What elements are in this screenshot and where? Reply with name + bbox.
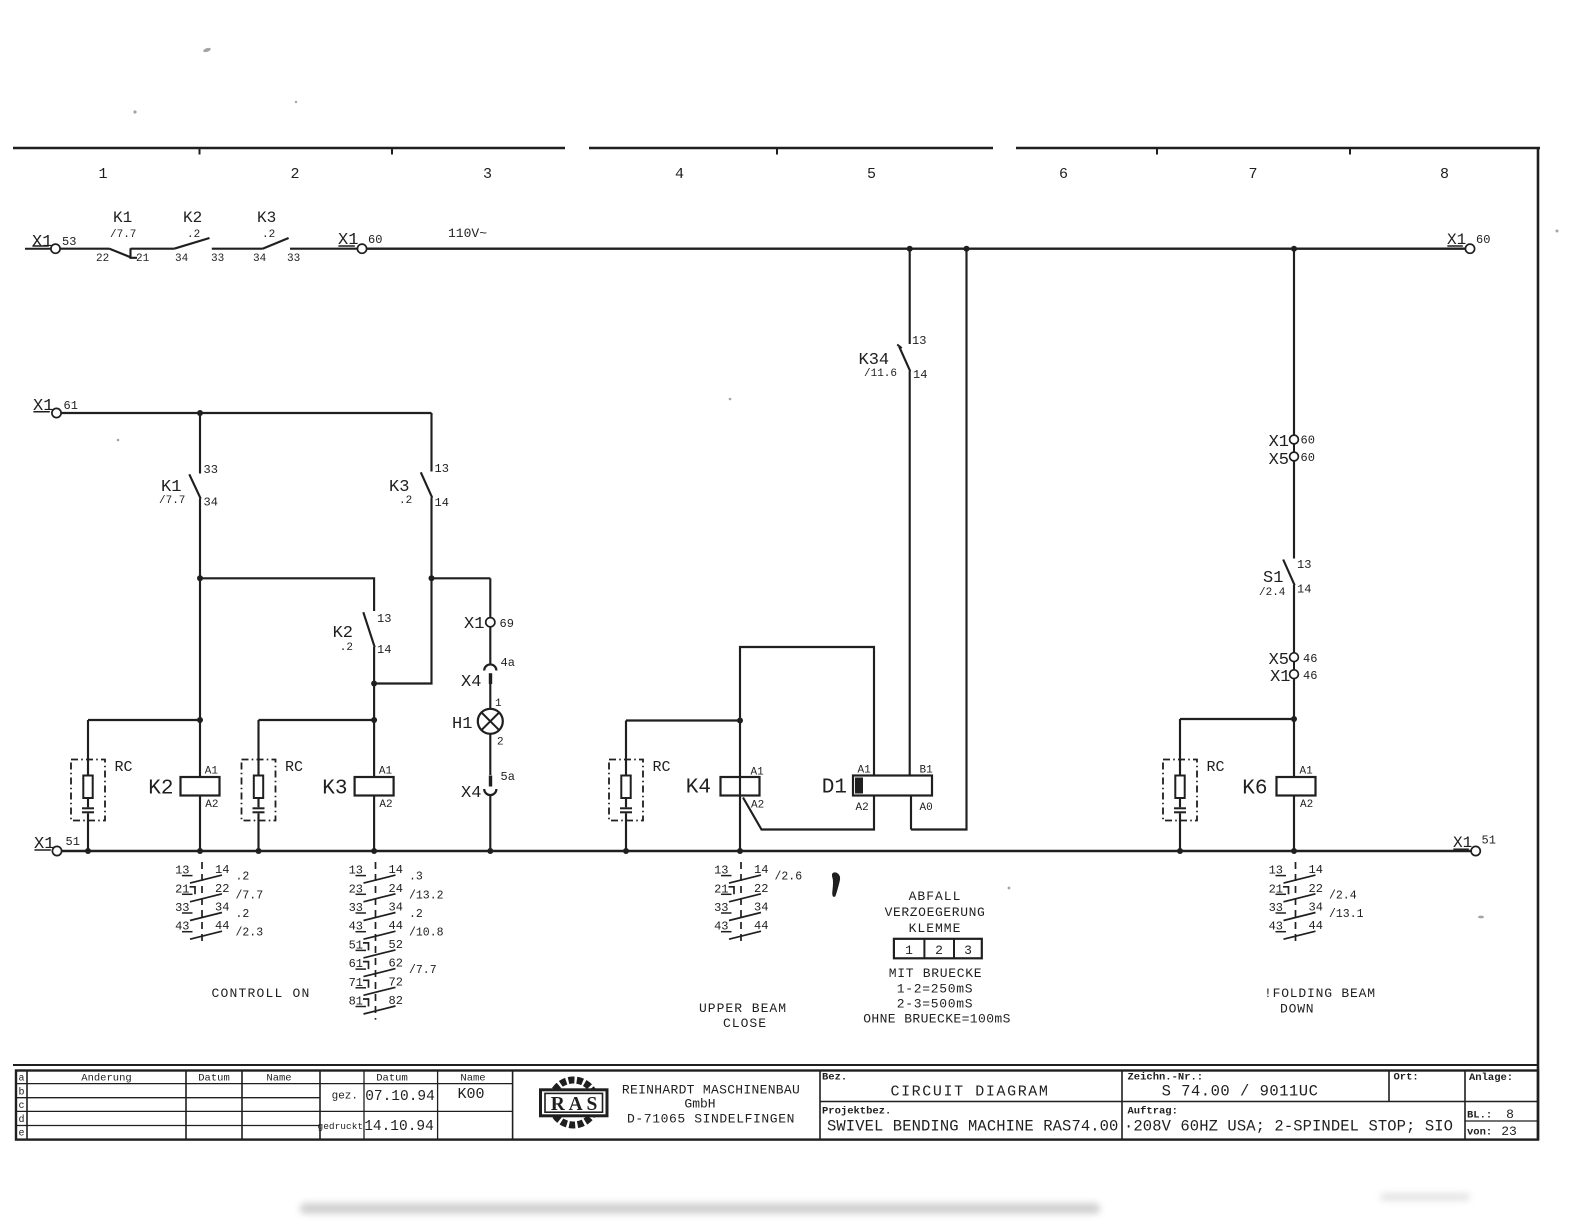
junction RC6/bus xyxy=(1177,848,1183,854)
junction K6/bus xyxy=(1291,848,1297,854)
svg-text:69: 69 xyxy=(500,617,514,631)
junction bus/K6 branch xyxy=(1291,246,1297,252)
svg-text:/7.7: /7.7 xyxy=(236,889,264,902)
wire X4 5a to bus xyxy=(489,795,491,851)
terminal X1:60 xyxy=(338,231,382,253)
junction X1:61/K1 xyxy=(197,410,203,416)
svg-text:3: 3 xyxy=(483,166,492,183)
svg-text:14: 14 xyxy=(1309,863,1323,877)
svg-text:ABFALL: ABFALL xyxy=(909,889,962,904)
svg-text:4: 4 xyxy=(675,166,684,183)
svg-text:110V~: 110V~ xyxy=(448,226,487,241)
svg-text:60: 60 xyxy=(368,233,382,247)
svg-text:KLEMME: KLEMME xyxy=(909,921,962,936)
wire X1:53 to K1 xyxy=(60,248,109,250)
svg-text:22: 22 xyxy=(1309,882,1323,896)
svg-text:21: 21 xyxy=(136,253,150,265)
svg-text:13: 13 xyxy=(1297,558,1311,572)
wire D1 A2 to K4 A2 xyxy=(743,796,874,830)
svg-text:.3: .3 xyxy=(409,871,423,884)
contact table K3 xyxy=(349,862,444,1020)
svg-text:OHNE BRUECKE=100mS: OHNE BRUECKE=100mS xyxy=(863,1012,1011,1027)
wire K2 contact to junction xyxy=(373,647,375,684)
wire K3 to X1:60 xyxy=(290,248,357,250)
svg-text:K00: K00 xyxy=(457,1086,484,1103)
coil K2 xyxy=(148,766,219,812)
svg-text:X1: X1 xyxy=(1270,668,1290,687)
svg-text:/2.4: /2.4 xyxy=(1259,587,1286,599)
svg-text:/2.6: /2.6 xyxy=(775,871,803,884)
svg-text:53: 53 xyxy=(62,235,76,249)
terminal strip KLEMME 1-2-3 xyxy=(894,939,982,959)
svg-text:13: 13 xyxy=(377,612,391,626)
wire to coil K2 A1 xyxy=(199,720,201,777)
wire mid horizontal K1-K2 xyxy=(200,578,374,611)
wire K6 branch upper xyxy=(1293,249,1295,435)
coil K3 xyxy=(322,766,393,812)
svg-text:44: 44 xyxy=(754,919,768,933)
svg-text:23: 23 xyxy=(1501,1124,1517,1139)
svg-text:X5: X5 xyxy=(1269,451,1289,470)
svg-text:R A S: R A S xyxy=(551,1094,598,1115)
svg-text:A2: A2 xyxy=(205,799,218,811)
wire X4 to H1 xyxy=(489,684,491,709)
junction RC2/bus xyxy=(256,848,262,854)
svg-text:/7.7: /7.7 xyxy=(409,964,437,977)
RC suppressor (K6) xyxy=(1163,719,1225,851)
svg-text:/7.7: /7.7 xyxy=(110,229,136,241)
svg-text:RC: RC xyxy=(285,759,303,776)
svg-text:.2: .2 xyxy=(399,495,412,507)
svg-text:A0: A0 xyxy=(920,802,933,814)
contact K34 13-14 (NO) xyxy=(859,334,928,382)
svg-text:Anlage:: Anlage: xyxy=(1469,1072,1513,1084)
svg-text:2: 2 xyxy=(290,166,299,183)
svg-text:X1: X1 xyxy=(464,615,484,634)
svg-text:34: 34 xyxy=(389,901,403,915)
contact K1 21-22 (NC) xyxy=(96,209,150,265)
junction bus/K34 xyxy=(907,246,913,252)
svg-text:Auftrag:: Auftrag: xyxy=(1128,1106,1178,1118)
RC suppressor (K2) xyxy=(71,720,133,851)
svg-text:33: 33 xyxy=(287,253,300,265)
connector X4 pin 4a xyxy=(461,656,515,692)
svg-text:X4: X4 xyxy=(461,673,481,692)
svg-text:14: 14 xyxy=(1297,583,1311,597)
svg-text:S 74.00 / 9011UC: S 74.00 / 9011UC xyxy=(1162,1083,1319,1101)
svg-text:·208V 60HZ USA; 2-SPINDEL STOP: ·208V 60HZ USA; 2-SPINDEL STOP; SIO xyxy=(1124,1118,1453,1136)
svg-text:K2: K2 xyxy=(333,624,353,643)
svg-text:2: 2 xyxy=(497,737,504,749)
label MIT BRUECKE timing values xyxy=(863,966,1011,1027)
wire H1 to X4 5a xyxy=(489,734,491,775)
svg-text:gez.: gez. xyxy=(332,1091,358,1103)
svg-text:34: 34 xyxy=(754,901,768,915)
svg-text:46: 46 xyxy=(1303,669,1317,683)
svg-text:14.10.94: 14.10.94 xyxy=(364,1119,434,1135)
svg-text:A2: A2 xyxy=(856,802,869,814)
svg-text:33: 33 xyxy=(204,463,218,477)
svg-text:.2: .2 xyxy=(236,871,250,884)
svg-text:34: 34 xyxy=(204,496,218,510)
svg-text:A2: A2 xyxy=(1300,799,1313,811)
svg-text:GmbH: GmbH xyxy=(684,1097,715,1112)
contact K3 13-14 (NO) xyxy=(389,462,449,510)
terminal X1:69 xyxy=(464,615,514,634)
svg-text:/11.6: /11.6 xyxy=(864,368,897,380)
svg-text:34: 34 xyxy=(215,901,229,915)
terminal X1:61 xyxy=(33,397,78,418)
wire K1 branch upper xyxy=(199,413,201,474)
svg-text:1: 1 xyxy=(495,698,502,710)
wire K3 node to H1 branch xyxy=(432,577,491,579)
label UPPER BEAM CLOSE xyxy=(699,1001,787,1031)
svg-text:3: 3 xyxy=(964,943,972,958)
wire to X1:69 xyxy=(489,578,491,617)
svg-text:44: 44 xyxy=(1309,919,1323,933)
coil K4 xyxy=(686,767,764,812)
svg-text:CLOSE: CLOSE xyxy=(723,1016,767,1031)
contact table K6 xyxy=(1269,862,1364,945)
svg-text:07.10.94: 07.10.94 xyxy=(365,1089,435,1105)
svg-text:7: 7 xyxy=(1248,166,1257,183)
wire X1:46 to K6 xyxy=(1293,679,1295,777)
svg-text:/13.1: /13.1 xyxy=(1329,908,1364,921)
terminal X1:51 right xyxy=(1453,834,1496,856)
svg-text:K3: K3 xyxy=(322,778,347,801)
svg-text:Name: Name xyxy=(460,1073,485,1085)
svg-text:S1: S1 xyxy=(1263,569,1283,588)
terminal X1:51 left xyxy=(34,835,80,856)
label ABFALL VERZOEGERUNG KLEMME xyxy=(885,889,986,936)
svg-text:72: 72 xyxy=(389,975,403,989)
svg-text:A1: A1 xyxy=(205,766,219,778)
contact table K2 xyxy=(175,862,263,945)
svg-text:RC: RC xyxy=(115,759,133,776)
svg-text:44: 44 xyxy=(215,919,229,933)
wire K1 to node xyxy=(199,499,201,579)
svg-text:.2: .2 xyxy=(262,229,275,241)
svg-text:B1: B1 xyxy=(920,765,934,777)
svg-text:.2: .2 xyxy=(340,642,353,654)
svg-text:K3: K3 xyxy=(257,209,276,227)
svg-text:D1: D1 xyxy=(822,777,847,800)
svg-text:2-3=500mS: 2-3=500mS xyxy=(897,997,974,1012)
svg-text:/7.7: /7.7 xyxy=(159,495,185,507)
svg-text:.2: .2 xyxy=(409,908,423,921)
svg-text:Datum: Datum xyxy=(198,1073,230,1085)
svg-text:14: 14 xyxy=(377,643,391,657)
svg-text:61: 61 xyxy=(64,399,78,413)
junction K2/K3-wire xyxy=(371,681,377,687)
svg-text:/13.2: /13.2 xyxy=(409,889,444,902)
wire bottom bus X1:51 xyxy=(62,850,1471,852)
svg-text:14: 14 xyxy=(389,863,403,877)
timer relay D1 xyxy=(822,765,933,815)
wire K1 to K2 xyxy=(131,248,175,250)
svg-text:51: 51 xyxy=(1482,834,1496,848)
junction K3 coil/RC tap xyxy=(371,717,377,723)
svg-text:SWIVEL BENDING MACHINE RAS74.0: SWIVEL BENDING MACHINE RAS74.00 xyxy=(827,1118,1118,1136)
svg-text:a: a xyxy=(18,1074,24,1085)
junction K3/bus xyxy=(371,848,377,854)
svg-text:Bez.: Bez. xyxy=(822,1072,847,1084)
svg-text:/10.8: /10.8 xyxy=(409,927,444,940)
svg-text:X1: X1 xyxy=(1269,433,1289,452)
svg-text:gedruckt: gedruckt xyxy=(318,1121,364,1132)
svg-text:34: 34 xyxy=(1309,901,1323,915)
svg-text:H1: H1 xyxy=(452,715,472,734)
junction K4/bus xyxy=(737,848,743,854)
svg-text:Ort:: Ort: xyxy=(1394,1072,1419,1084)
svg-text:2: 2 xyxy=(935,943,943,958)
terminal X1:53 xyxy=(25,233,76,253)
svg-text:REINHARDT MASCHINENBAU: REINHARDT MASCHINENBAU xyxy=(622,1083,800,1098)
svg-text:VERZOEGERUNG: VERZOEGERUNG xyxy=(885,905,986,920)
svg-text:A1: A1 xyxy=(858,765,872,777)
svg-text:60: 60 xyxy=(1301,434,1315,448)
svg-text:UPPER BEAM: UPPER BEAM xyxy=(699,1001,787,1016)
wire X1:61 bus xyxy=(61,412,431,414)
svg-text:8: 8 xyxy=(1506,1107,1514,1122)
svg-text:5: 5 xyxy=(867,166,876,183)
contact K2 13-14 (NO) xyxy=(333,612,392,657)
lamp H1 xyxy=(452,698,504,749)
svg-text:62: 62 xyxy=(389,957,403,971)
terminal X1:60 right xyxy=(1447,231,1490,253)
svg-text:MIT BRUECKE: MIT BRUECKE xyxy=(889,966,983,981)
svg-text:Anderung: Anderung xyxy=(81,1073,131,1085)
svg-text:K4: K4 xyxy=(686,777,711,800)
logo RAS xyxy=(541,1080,608,1125)
svg-text:34: 34 xyxy=(175,253,189,265)
wire to coil K3 xyxy=(373,684,375,721)
svg-text:51: 51 xyxy=(66,835,80,849)
svg-text:X1: X1 xyxy=(33,397,53,416)
svg-text:14: 14 xyxy=(913,368,927,382)
svg-text:A1: A1 xyxy=(379,766,393,778)
wire RC tap K4 xyxy=(626,719,740,721)
svg-text:33: 33 xyxy=(211,253,224,265)
terminal X5:60 xyxy=(1269,451,1315,470)
svg-text:.2: .2 xyxy=(236,908,250,921)
junction RC4/bus xyxy=(623,848,629,854)
svg-text:Datum: Datum xyxy=(376,1073,408,1085)
wire bus to D1 A0 xyxy=(911,249,967,830)
contact K3 33-34 (NO) xyxy=(253,209,300,265)
wire coil K3 to bus xyxy=(373,796,375,852)
svg-text:5a: 5a xyxy=(501,770,515,784)
terminal X5:46 xyxy=(1269,651,1318,670)
svg-text:CIRCUIT DIAGRAM: CIRCUIT DIAGRAM xyxy=(890,1084,1049,1101)
svg-text:!FOLDING BEAM: !FOLDING BEAM xyxy=(1264,986,1376,1001)
svg-text:14: 14 xyxy=(754,863,768,877)
junction K4/RC tap xyxy=(737,718,743,724)
svg-text:13: 13 xyxy=(912,334,926,348)
svg-text:60: 60 xyxy=(1301,451,1315,465)
svg-text:.2: .2 xyxy=(187,229,200,241)
wire K34 branch upper xyxy=(909,249,911,344)
svg-text:52: 52 xyxy=(389,938,403,952)
svg-text:34: 34 xyxy=(253,253,267,265)
svg-text:8: 8 xyxy=(1440,166,1449,183)
contact K2 33-34 (NO) xyxy=(174,209,224,265)
wire K3 node down to K2-bottom xyxy=(374,578,431,683)
svg-text:46: 46 xyxy=(1303,652,1317,666)
svg-text:A1: A1 xyxy=(751,767,765,779)
svg-text:24: 24 xyxy=(389,882,403,896)
svg-text:K2: K2 xyxy=(148,778,173,801)
svg-text:DOWN: DOWN xyxy=(1280,1002,1314,1017)
wire coil K6 to bus xyxy=(1293,796,1295,852)
svg-text:K1: K1 xyxy=(113,209,132,227)
svg-text:D-71065 SINDELFINGEN: D-71065 SINDELFINGEN xyxy=(627,1112,795,1127)
svg-text:1: 1 xyxy=(98,166,107,183)
contact S1 13-14 (NO) xyxy=(1259,558,1311,599)
svg-text:RC: RC xyxy=(1207,759,1225,776)
svg-text:CONTROLL ON: CONTROLL ON xyxy=(211,986,310,1001)
junction K1/mid wire xyxy=(197,575,203,581)
svg-text:22: 22 xyxy=(96,253,109,265)
junction RC1/bus xyxy=(85,848,91,854)
svg-text:13: 13 xyxy=(435,462,449,476)
wire RC tap K2 xyxy=(88,719,200,721)
RC suppressor (K4) xyxy=(609,721,671,852)
wire 110V~ bus xyxy=(367,226,1466,249)
wire X5:60 to S1 xyxy=(1293,461,1295,559)
wire X1:69 to X4 xyxy=(489,627,491,664)
svg-text:K6: K6 xyxy=(1242,778,1267,801)
svg-text:6: 6 xyxy=(1059,166,1068,183)
wire RC tap K6 xyxy=(1180,718,1294,720)
svg-text:RC: RC xyxy=(653,759,671,776)
svg-text:b: b xyxy=(18,1086,24,1098)
junction K6/RC tap xyxy=(1291,716,1297,722)
wire RC tap K3 xyxy=(259,719,375,721)
junction bus/D1-A0 xyxy=(964,246,970,252)
svg-text:K2: K2 xyxy=(183,209,202,227)
svg-text:82: 82 xyxy=(389,994,403,1008)
RC suppressor (K3) xyxy=(242,720,304,851)
label FOLDING BEAM DOWN xyxy=(1264,986,1376,1017)
terminal X1:46 (branch) xyxy=(1270,668,1317,687)
wire K4 coil to bus xyxy=(739,721,741,852)
svg-text:X1: X1 xyxy=(34,835,54,854)
svg-text:A2: A2 xyxy=(379,799,392,811)
coil K6 xyxy=(1242,766,1315,812)
svg-text:/2.3: /2.3 xyxy=(236,927,264,940)
wire S1 to X5:46 xyxy=(1293,585,1295,653)
junction H1/bus xyxy=(487,848,493,854)
ink smudge xyxy=(832,873,839,897)
svg-text:22: 22 xyxy=(754,882,768,896)
wire K3 to node xyxy=(430,498,432,579)
wire K2 to K3 xyxy=(212,248,263,250)
svg-text:d: d xyxy=(18,1114,24,1126)
contact K1 33-34 (NO) xyxy=(159,463,218,510)
svg-text:A1: A1 xyxy=(1300,766,1314,778)
svg-text:von:: von: xyxy=(1467,1127,1492,1139)
junction K3/H1 wire xyxy=(429,575,435,581)
svg-text:e: e xyxy=(18,1129,24,1140)
wire K34 to D1 B1 xyxy=(909,371,911,776)
svg-text:Projektbez.: Projektbez. xyxy=(822,1106,891,1118)
svg-text:A2: A2 xyxy=(751,800,764,812)
svg-text:1-2=250mS: 1-2=250mS xyxy=(897,982,974,997)
connector X4 pin 5a xyxy=(461,770,515,803)
wire coil K2 to bus xyxy=(199,796,201,852)
svg-text:X1: X1 xyxy=(338,231,358,250)
svg-text:/2.4: /2.4 xyxy=(1329,889,1357,902)
svg-text:X4: X4 xyxy=(461,784,481,803)
svg-text:Name: Name xyxy=(266,1073,291,1085)
contact table K4 xyxy=(714,862,802,945)
wire to coil K3 A1 xyxy=(373,720,375,777)
svg-text:BL.:: BL.: xyxy=(1467,1110,1492,1122)
terminal X1:60 (branch) xyxy=(1269,433,1315,452)
svg-text:14: 14 xyxy=(215,863,229,877)
svg-text:14: 14 xyxy=(435,496,449,510)
svg-text:4a: 4a xyxy=(501,656,515,670)
wire K4 loop top xyxy=(740,647,874,776)
svg-text:60: 60 xyxy=(1476,233,1490,247)
svg-text:c: c xyxy=(18,1101,24,1112)
junction K2 coil/RC tap xyxy=(197,717,203,723)
wire K1 branch to coil K2 xyxy=(199,578,201,720)
svg-text:44: 44 xyxy=(389,919,403,933)
svg-text:22: 22 xyxy=(215,882,229,896)
wire D1 A0 pin xyxy=(910,796,912,830)
junction K2/bus xyxy=(197,848,203,854)
wire X1:61 corner to K3 xyxy=(430,413,432,472)
svg-text:1: 1 xyxy=(905,943,913,958)
